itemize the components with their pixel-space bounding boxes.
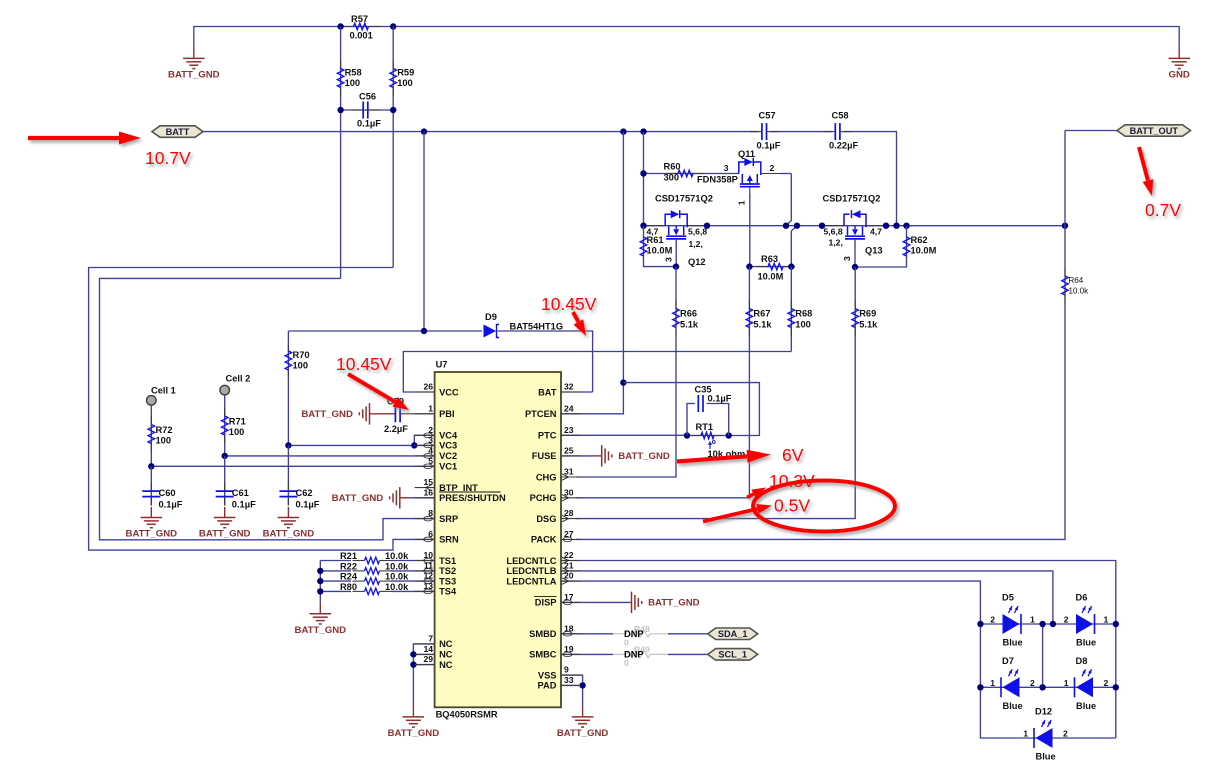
svg-text:21: 21 [564, 560, 574, 570]
capacitor C35 [687, 404, 695, 436]
U7 pin 20 LEDCNTLA [561, 580, 581, 582]
svg-text:BATT_GND: BATT_GND [295, 625, 347, 636]
svg-text:100: 100 [397, 78, 413, 88]
diode D9 BAT54HT1G [288, 330, 482, 332]
junction RT1 right [726, 432, 732, 438]
svg-text:33: 33 [564, 675, 574, 685]
annotation ellipse around 0.5V [753, 481, 895, 532]
svg-text:3: 3 [724, 163, 729, 173]
svg-text:Cell 2: Cell 2 [226, 374, 251, 384]
junction FET row dots [640, 223, 646, 229]
TS pull resistor block: wire and junctions [319, 561, 321, 604]
svg-text:NC: NC [439, 660, 453, 670]
U7 pin 19 SMBC [561, 653, 581, 655]
capacitor C62 [279, 490, 297, 492]
svg-text:TS3: TS3 [439, 576, 456, 586]
U7 pin 1 PBI [415, 413, 435, 415]
resistor R72 [150, 417, 152, 425]
resistor R61 [644, 226, 677, 267]
svg-text:BTP_INT: BTP_INT [439, 483, 478, 493]
svg-text:24: 24 [564, 403, 574, 413]
U7 pin 28 DSG [561, 518, 581, 520]
svg-text:D9: D9 [485, 312, 497, 322]
svg-text:5.1k: 5.1k [859, 320, 878, 330]
U7 pin 16 PRES/SHUTDN [415, 497, 435, 499]
svg-text:31: 31 [564, 467, 574, 477]
capacitor C58 [834, 123, 836, 140]
svg-text:Q12: Q12 [688, 257, 706, 267]
wire: LEDCNTLA to LED left rail [561, 581, 1116, 738]
U7 pin 22 LEDCNTLC [561, 560, 581, 562]
svg-text:BAT: BAT [538, 387, 557, 397]
svg-text:D12: D12 [1035, 707, 1052, 717]
U7 pin 30 PCHG [561, 497, 581, 499]
svg-text:BATT_GND: BATT_GND [648, 598, 700, 609]
svg-text:BATT_GND: BATT_GND [332, 493, 384, 504]
svg-text:U7: U7 [436, 360, 448, 370]
wire: LED mid vertical [1042, 624, 1044, 687]
resistor R68 [790, 301, 792, 309]
svg-text:5.1k: 5.1k [753, 320, 772, 330]
svg-text:R80: R80 [340, 582, 357, 592]
svg-text:29: 29 [423, 654, 433, 664]
wire: PTCEN column [622, 132, 624, 383]
svg-text:22: 22 [564, 550, 574, 560]
svg-text:PACK: PACK [531, 535, 557, 545]
wire: R59 column down to SRN loop [392, 27, 394, 268]
ground BATT_GND under TS resistors [319, 603, 321, 614]
svg-text:CSD17571Q2: CSD17571Q2 [823, 193, 881, 203]
svg-text:32: 32 [564, 382, 574, 392]
resistor R21 [353, 560, 365, 562]
svg-text:NC: NC [439, 639, 453, 649]
svg-text:R72: R72 [156, 425, 173, 435]
wire: SRN sense loop [89, 268, 435, 551]
svg-text:TS1: TS1 [439, 556, 456, 566]
junction R60 row [640, 170, 646, 176]
svg-text:Blue: Blue [1036, 752, 1056, 762]
svg-text:14: 14 [423, 644, 433, 654]
wire: VCC loop over chip to R68 [403, 352, 791, 393]
svg-text:D6: D6 [1076, 593, 1088, 603]
wire: R60/Q12 drain column [643, 132, 645, 226]
svg-text:VCC: VCC [439, 387, 459, 397]
junction VC3/VC4 tie [411, 442, 417, 448]
wire: C62 column [287, 445, 289, 505]
svg-text:10.0k: 10.0k [385, 561, 409, 571]
capacitor C59 2.2uF [394, 405, 396, 422]
svg-text:DSG: DSG [536, 514, 556, 524]
cell terminal Cell 2 [220, 385, 230, 395]
svg-text:7: 7 [428, 633, 433, 643]
U7 pin 25 FUSE [561, 455, 581, 457]
junction BATT rail at battery stack column [421, 128, 427, 134]
svg-text:1: 1 [428, 403, 433, 413]
wire: Q11 pin1 stem down to R63 [749, 187, 751, 194]
svg-text:GND: GND [1169, 69, 1190, 80]
svg-text:PBI: PBI [439, 409, 455, 419]
svg-text:1: 1 [737, 200, 747, 205]
svg-text:100: 100 [293, 361, 309, 371]
wire: SMBD to SDA_1 with DNP R48 [561, 633, 613, 635]
svg-text:LEDCNTLC: LEDCNTLC [506, 556, 556, 566]
port BATT [152, 126, 203, 138]
annotation 0.5V at DSG [703, 509, 757, 522]
resistor R63 [749, 266, 791, 268]
svg-text:BATT: BATT [166, 127, 190, 137]
U7 pin 2 VC4 [415, 434, 435, 436]
wire: VC2 row [225, 455, 435, 457]
svg-text:2.2µF: 2.2µF [384, 424, 408, 434]
svg-text:C60: C60 [159, 488, 176, 498]
svg-text:SMBD: SMBD [529, 629, 557, 639]
junction D9 wire at battery column [421, 328, 427, 334]
svg-text:BATT_GND: BATT_GND [301, 409, 353, 420]
svg-text:4,7: 4,7 [870, 227, 882, 237]
wire: R70 column [287, 331, 289, 445]
transistor Q13 CSD17571Q2 [844, 214, 850, 226]
svg-text:100: 100 [795, 320, 811, 330]
svg-text:C57: C57 [759, 111, 776, 121]
svg-text:2: 2 [1064, 615, 1069, 625]
capacitor C57 [761, 123, 763, 140]
U7 pin 33 PAD [561, 684, 581, 686]
wire: LEDCNTLC to LED right rail [561, 561, 1116, 739]
ground BATT_GND top-left [193, 48, 195, 59]
svg-text:16: 16 [423, 487, 433, 497]
svg-text:Blue: Blue [1076, 638, 1096, 648]
junction C56 right [390, 107, 396, 113]
port SCL_1 [708, 649, 758, 661]
svg-text:Cell 1: Cell 1 [151, 386, 176, 396]
svg-text:R69: R69 [859, 309, 876, 319]
svg-text:Q13: Q13 [865, 246, 883, 256]
svg-text:23: 23 [564, 425, 574, 435]
wire: LEDCNTLB to LED mid column [561, 571, 1053, 624]
svg-text:3: 3 [664, 257, 674, 262]
wire: R69 column down to DSG [576, 267, 855, 519]
wire: VC4 jog down to VC3 [414, 435, 434, 445]
wire: VC3 row from R70 column [288, 444, 434, 446]
junction VC2 tap [222, 453, 228, 459]
svg-text:BAT54HT1G: BAT54HT1G [510, 322, 564, 332]
svg-text:26: 26 [423, 382, 433, 392]
resistor R57 [342, 26, 354, 28]
svg-text:5.1k: 5.1k [680, 320, 699, 330]
thermistor RT1 10k [687, 435, 729, 437]
svg-text:BATT_GND: BATT_GND [126, 529, 178, 540]
annotation 0.7V at BATT_OUT [1139, 147, 1148, 181]
svg-text:BATT_GND: BATT_GND [263, 529, 315, 540]
svg-text:10.0k: 10.0k [385, 572, 409, 582]
junction on top rail left of R57 [337, 23, 343, 29]
U7 pin 6 SRN [415, 538, 435, 540]
svg-text:R60: R60 [664, 161, 681, 171]
U7 pin 3 VC3 [415, 444, 435, 446]
wire: PTC row [561, 434, 687, 436]
svg-text:VC4: VC4 [439, 431, 458, 441]
port BATT_OUT [1117, 125, 1191, 136]
svg-text:PTCEN: PTCEN [525, 409, 557, 419]
svg-text:SMBC: SMBC [529, 650, 557, 660]
junction PTCEN/RT1 node [620, 379, 626, 385]
LED D5 [1003, 614, 1020, 634]
annotation arrow 10.7V at BATT [28, 136, 119, 140]
svg-text:R62: R62 [911, 235, 928, 245]
svg-text:6V: 6V [782, 445, 804, 465]
resistor R60 [666, 173, 678, 175]
wire: R67 column down to PCHG [576, 267, 749, 498]
svg-text:R24: R24 [340, 572, 358, 582]
wire: Cell2 column [224, 395, 226, 456]
wire: right gate column with jog at FET row [786, 174, 791, 226]
ground GND top-right [1178, 48, 1180, 59]
svg-text:1,2,: 1,2, [689, 239, 703, 249]
wire: C61 column [224, 456, 226, 506]
svg-text:0.1µF: 0.1µF [357, 119, 381, 129]
svg-text:R64: R64 [1069, 276, 1084, 285]
node PRES/SHUTDN ground BATT_GND [399, 497, 401, 499]
resistor R24 [353, 580, 365, 582]
resistor R64 [1064, 268, 1066, 276]
annotation 10.3V at PCHG [747, 494, 754, 498]
svg-text:TS2: TS2 [439, 566, 456, 576]
svg-text:DISP: DISP [535, 598, 557, 608]
svg-text:0.001: 0.001 [350, 31, 373, 41]
svg-text:1,2,: 1,2, [829, 238, 843, 248]
wire: SMBC to SCL_1 with DNP R49 [561, 653, 613, 655]
svg-text:R67: R67 [753, 309, 770, 319]
ground BATT_GND under C61 [224, 507, 226, 518]
LED D6 [1076, 614, 1093, 634]
wire: C56 row between columns [341, 109, 394, 111]
LED D8 [1076, 677, 1093, 697]
resistor R59 [392, 61, 394, 69]
svg-text:Blue: Blue [1003, 638, 1023, 648]
resistor R62 [855, 226, 907, 267]
port SDA_1 [708, 628, 758, 640]
svg-text:TS4: TS4 [439, 587, 457, 597]
svg-text:SCL_1: SCL_1 [718, 650, 747, 660]
junction on top rail right of R57 [390, 23, 396, 29]
resistor R80 [353, 590, 365, 592]
svg-text:2: 2 [1063, 729, 1068, 739]
svg-text:BQ4050RSMR: BQ4050RSMR [436, 710, 498, 720]
wire: Q13 gate stem [854, 239, 856, 246]
svg-text:2: 2 [1104, 678, 1109, 688]
svg-text:D5: D5 [1002, 593, 1014, 603]
svg-text:10.0k: 10.0k [385, 582, 409, 592]
wire: PTCEN pin up to BATT column [561, 383, 623, 414]
svg-text:3: 3 [842, 256, 852, 261]
svg-text:5,6,8: 5,6,8 [688, 227, 707, 237]
svg-text:BATT_OUT: BATT_OUT [1130, 126, 1179, 136]
svg-text:0.5V: 0.5V [774, 496, 810, 516]
junction R63 left [746, 263, 752, 269]
wire: Q12 gate stem [675, 239, 677, 246]
svg-text:C61: C61 [232, 488, 249, 498]
svg-text:NC: NC [439, 650, 453, 660]
junction C56 left [337, 107, 343, 113]
svg-text:R61: R61 [647, 235, 664, 245]
svg-text:15: 15 [423, 477, 433, 487]
LED D7 [1003, 677, 1020, 697]
capacitor C56 [362, 102, 364, 119]
wire: VC1 row [151, 465, 434, 467]
svg-text:SDA_1: SDA_1 [718, 629, 748, 639]
U7 pin 15 BTP_INT [415, 487, 435, 489]
svg-text:25: 25 [564, 445, 574, 455]
U7 pin 26 VCC [415, 391, 435, 393]
U7 pin 8 SRP [415, 518, 435, 520]
node DISP ground BATT_GND [561, 601, 630, 603]
wire: NC pins tie [413, 644, 434, 707]
resistor R66 [675, 301, 677, 309]
svg-text:R59: R59 [397, 68, 414, 78]
junction Q12 gate node [673, 263, 679, 269]
wire: R58 column down to SRP loop [340, 27, 342, 279]
node PBI decoupling: ground BATT_GND [369, 413, 371, 415]
svg-text:LEDCNTLB: LEDCNTLB [506, 566, 556, 576]
svg-text:VC1: VC1 [439, 462, 457, 472]
svg-text:PTC: PTC [538, 431, 557, 441]
svg-text:VC3: VC3 [439, 441, 457, 451]
wire: RT1 feed loop [623, 383, 759, 436]
wire: VSS/PAD tie [561, 675, 583, 706]
svg-text:Blue: Blue [1003, 701, 1023, 711]
svg-text:0.1µF: 0.1µF [708, 394, 732, 404]
wire: SRP sense loop [100, 278, 435, 539]
svg-text:R21: R21 [340, 551, 357, 561]
junction R70/C62 tap [285, 442, 291, 448]
svg-text:1: 1 [1104, 615, 1109, 625]
ground BATT_GND under VSS/PAD [582, 706, 584, 717]
svg-text:PRES/SHUTDN: PRES/SHUTDN [439, 493, 506, 503]
U7 pin 12 TS3 [415, 580, 435, 582]
svg-text:VC2: VC2 [439, 451, 457, 461]
wire: R68 column down to VCC wire [790, 267, 792, 352]
svg-text:SRP: SRP [439, 514, 458, 524]
svg-text:100: 100 [345, 78, 361, 88]
resistor R22 [353, 570, 365, 572]
svg-text:0.22µF: 0.22µF [829, 141, 858, 151]
svg-text:0.1µF: 0.1µF [159, 500, 183, 510]
resistor R71 [224, 408, 226, 416]
junction Q13 gate node [852, 264, 858, 270]
svg-text:DNP: DNP [624, 629, 644, 639]
svg-text:R63: R63 [761, 254, 778, 264]
svg-text:1: 1 [1064, 678, 1069, 688]
svg-text:R22: R22 [340, 561, 357, 571]
svg-text:D8: D8 [1076, 656, 1088, 666]
U7 pin 17 DISP [561, 601, 581, 603]
svg-text:CSD17571Q2: CSD17571Q2 [655, 193, 713, 203]
transistor Q12 CSD17571Q2 [665, 214, 671, 226]
svg-text:RT1: RT1 [696, 422, 714, 432]
U7 pin 18 SMBD [561, 633, 581, 635]
U7 pin 14 NC [415, 653, 435, 655]
svg-text:20: 20 [564, 571, 574, 581]
svg-text:0.1µF: 0.1µF [296, 500, 320, 510]
U7 pin 7 NC [415, 643, 435, 645]
resistor R69 [854, 301, 856, 309]
U7 pin 21 LEDCNTLB [561, 570, 581, 572]
svg-text:300: 300 [664, 173, 680, 183]
capacitor C61 [216, 490, 234, 492]
op-amp U7 BQ4050RSMR body [435, 372, 561, 707]
resistor R67 [748, 301, 750, 309]
svg-text:BATT_GND: BATT_GND [199, 529, 251, 540]
svg-text:10.0k: 10.0k [385, 551, 409, 561]
svg-text:BATT_GND: BATT_GND [168, 69, 220, 80]
junction BATT rail at PTCEN column [620, 128, 626, 134]
U7 pin 23 PTC [561, 434, 581, 436]
annotation 6V at CHG [677, 456, 747, 461]
svg-text:FUSE: FUSE [532, 451, 557, 461]
wire: BATT rail down to D9 anode wire [423, 132, 425, 331]
svg-text:5,6,8: 5,6,8 [824, 227, 843, 237]
svg-text:1: 1 [990, 678, 995, 688]
U7 pin 24 PTCEN [561, 413, 581, 415]
svg-text:BATT_GND: BATT_GND [557, 728, 609, 739]
svg-text:100: 100 [229, 427, 245, 437]
U7 pin 27 PACK [561, 538, 581, 540]
junction BATT rail at gate column [640, 128, 646, 134]
svg-text:VSS: VSS [538, 670, 557, 680]
svg-text:SRN: SRN [439, 535, 459, 545]
resistor R58 [340, 61, 342, 69]
junction RT1 left [684, 432, 690, 438]
svg-text:PAD: PAD [538, 681, 557, 691]
svg-text:DNP: DNP [624, 650, 644, 660]
svg-text:CHG: CHG [536, 472, 557, 482]
svg-text:BATT_GND: BATT_GND [388, 728, 440, 739]
svg-text:FDN358P: FDN358P [697, 175, 738, 185]
svg-text:0.1µF: 0.1µF [757, 141, 781, 151]
svg-text:1: 1 [1023, 729, 1028, 739]
svg-text:C58: C58 [832, 111, 849, 121]
svg-text:PCHG: PCHG [530, 493, 557, 503]
svg-text:0.7V: 0.7V [1145, 200, 1181, 220]
wire: R66 column down to CHG [576, 267, 676, 477]
ground BATT_GND under NC pins [412, 706, 414, 717]
svg-text:D7: D7 [1002, 656, 1014, 666]
wire: LED row1 [980, 623, 1115, 625]
wire: FET source row [644, 225, 897, 227]
junction LED dots [977, 621, 983, 627]
wire: top rail BATT_GND net [194, 27, 1179, 48]
wire: BATT rail [203, 131, 758, 133]
svg-text:2: 2 [1030, 678, 1035, 688]
U7 pin 10 TS1 [415, 560, 435, 562]
svg-text:2: 2 [770, 163, 775, 173]
svg-text:10.0k: 10.0k [1069, 287, 1090, 296]
junction R63 right [788, 263, 794, 269]
U7 pin 9 VSS [561, 674, 581, 676]
svg-text:10.0M: 10.0M [758, 272, 784, 282]
U7 pin 13 TS4 [415, 590, 435, 592]
wire: Cell1 column [150, 405, 152, 466]
junction VC1 tap [148, 463, 154, 469]
svg-text:10.45V: 10.45V [336, 354, 392, 374]
transistor Q11 FDN358P [739, 162, 745, 174]
svg-text:100: 100 [156, 436, 172, 446]
U7 pin 29 NC [415, 664, 435, 666]
svg-text:Q11: Q11 [738, 149, 755, 159]
svg-text:Blue: Blue [1076, 701, 1096, 711]
U7 pin 31 CHG [561, 476, 581, 478]
svg-text:C56: C56 [359, 92, 376, 102]
